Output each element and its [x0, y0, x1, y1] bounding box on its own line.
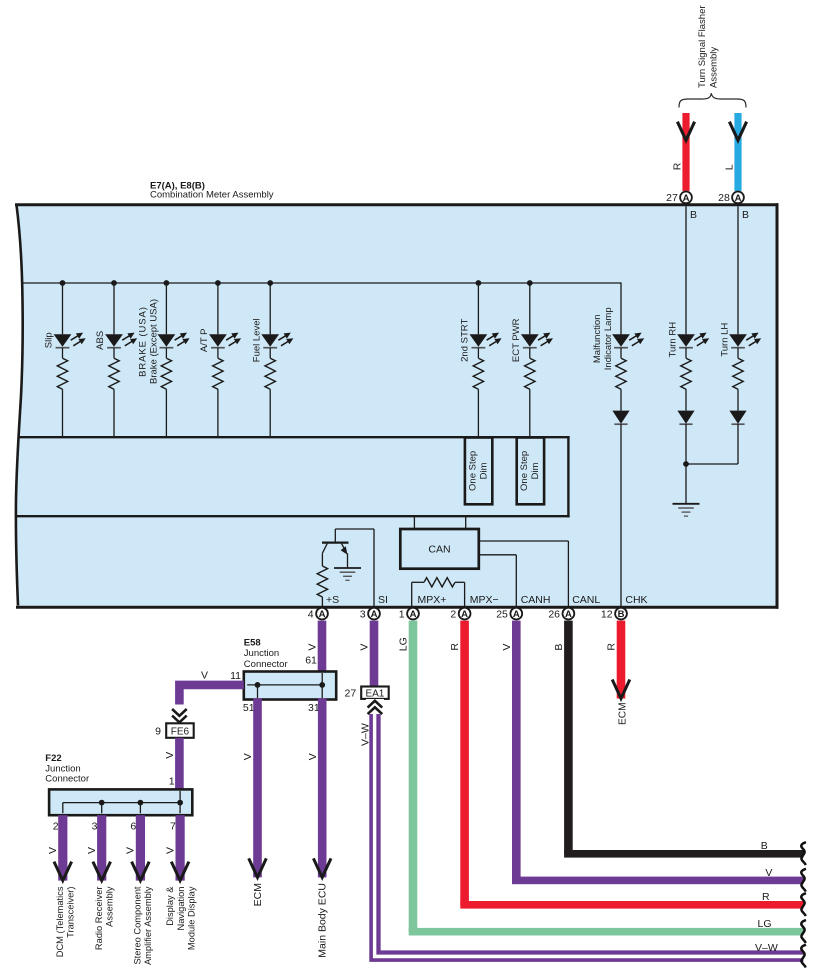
svg-text:V–W: V–W — [359, 723, 371, 746]
svg-text:9: 9 — [155, 726, 161, 738]
label V wire colour on 31 wire — [307, 753, 319, 760]
svg-text:26: 26 — [548, 609, 560, 621]
svg-text:7: 7 — [170, 820, 176, 832]
svg-text:2nd STRT: 2nd STRT — [460, 319, 471, 362]
resistor of A/T P circuit — [213, 348, 223, 436]
label V wire colour on 51 wire — [242, 753, 254, 760]
svg-text:B: B — [742, 209, 749, 221]
wire bus to LED ECT PWR — [529, 283, 531, 334]
pin 2 connector A circle — [450, 608, 470, 621]
resistor of BRAKE circuit — [161, 348, 171, 436]
pin 26 connector A circle — [548, 608, 574, 621]
wire Turn LH diode to ground node — [686, 424, 738, 464]
svg-text:Turn LH: Turn LH — [720, 323, 731, 357]
svg-text:Dim: Dim — [530, 462, 541, 479]
wire transistor base to SI pin — [335, 529, 374, 607]
svg-text:Assembly: Assembly — [709, 47, 720, 88]
node dot F22 pin7 — [177, 800, 183, 806]
svg-text:B: B — [690, 209, 697, 221]
svg-text:Radio Receiver: Radio Receiver — [94, 887, 104, 951]
label 11 — [230, 670, 241, 682]
squiggle break at B wire end — [801, 842, 806, 865]
pin 1 connector A circle — [399, 608, 419, 621]
svg-text:Main Body ECU: Main Body ECU — [317, 883, 329, 958]
wire bus to LED Fuel Level — [269, 283, 271, 334]
node dot E58 right — [319, 682, 325, 688]
svg-text:+S: +S — [326, 594, 339, 606]
LED indicator A/T P — [209, 333, 241, 348]
svg-text:A: A — [513, 609, 520, 620]
svg-text:Assembly: Assembly — [105, 886, 115, 927]
svg-text:LG: LG — [398, 637, 410, 651]
label MPX- — [470, 594, 499, 606]
LED indicator Turn RH — [677, 333, 709, 348]
svg-text:MPX−: MPX− — [470, 594, 499, 606]
F22 internal bus wire — [63, 791, 180, 813]
svg-text:Fuel Level: Fuel Level — [251, 318, 262, 362]
svg-text:A: A — [683, 193, 690, 204]
svg-text:61: 61 — [305, 654, 317, 666]
squiggle break at R wire end — [801, 893, 806, 916]
label destination DCM (Telematics Transceiver) — [55, 886, 76, 957]
svg-text:B: B — [618, 609, 625, 620]
svg-text:CANL: CANL — [572, 594, 600, 606]
wire R (red) from turn signal flasher — [682, 113, 689, 191]
svg-text:V: V — [765, 867, 772, 879]
label CHK — [625, 594, 647, 606]
ground symbol at transistor emitter — [334, 568, 361, 580]
wire V violet from pin 4 to E58 pin 61 — [318, 621, 327, 673]
svg-text:3: 3 — [360, 609, 366, 621]
label Slip — [44, 332, 55, 348]
label 61 — [305, 654, 317, 666]
label MPX+ — [418, 594, 447, 606]
label 27 at EA1 — [345, 688, 357, 700]
label L wire colour — [724, 164, 736, 170]
label destination Radio Receiver Assembly — [94, 886, 115, 950]
LED indicator ECT PWR — [521, 333, 553, 348]
combination meter assembly box E7(A)/E8(B) (light blue body with wavy left edge) — [15, 203, 779, 608]
wire V-W violet-white striped from EA1 (double line) — [371, 714, 803, 960]
label V wire colour on F22 pin 2 wire — [47, 847, 59, 854]
svg-text:A: A — [461, 609, 468, 620]
diode in Turn RH circuit — [677, 411, 694, 425]
svg-text:A: A — [735, 193, 742, 204]
label B wire colour under pin 28 — [742, 209, 749, 221]
node junction dot on bus at ABS — [111, 280, 117, 286]
connector FE6 box — [166, 723, 194, 738]
resistor of Turn RH circuit — [681, 348, 691, 411]
pin 12 connector B circle — [601, 608, 627, 621]
label R wire colour — [672, 162, 684, 170]
resistor of ABS circuit — [109, 348, 119, 436]
label BRAKE (USA) / Brake (Except USA) — [138, 299, 160, 384]
svg-text:25: 25 — [496, 609, 508, 621]
node junction dot on bus at A/T P — [215, 280, 221, 286]
wire CAN block to band (right) — [465, 517, 467, 529]
pin 4 connector A circle — [308, 608, 328, 621]
pin 25 connector A circle — [496, 608, 522, 621]
wire diode to CHK pin — [620, 424, 622, 607]
pin 27 connector A circle — [666, 192, 692, 205]
resistor of Malfunction Indicator Lamp circuit — [616, 348, 626, 411]
label ECM (CHK destination) — [617, 702, 628, 725]
LED indicator Turn LH — [729, 333, 761, 348]
svg-text:6: 6 — [130, 820, 136, 832]
svg-text:11: 11 — [230, 670, 241, 682]
svg-text:Junction: Junction — [244, 648, 279, 659]
arrowhead on F22 pin 2 wire — [54, 862, 72, 881]
wire CAN to CANL pin — [479, 541, 569, 607]
LED indicator Fuel Level — [261, 333, 293, 348]
arrowhead on L wire — [729, 122, 746, 141]
svg-text:R: R — [672, 162, 684, 170]
svg-text:28: 28 — [718, 192, 730, 204]
svg-text:B: B — [553, 644, 565, 651]
svg-text:Slip: Slip — [44, 332, 55, 348]
label destination Stereo Component Amplifier Assembly — [133, 886, 154, 965]
LED indicator BRAKE — [158, 333, 190, 348]
label V on horizontal wire — [201, 669, 208, 681]
wire bus to LED A/T P — [217, 283, 219, 334]
node junction dot on bus at BRAKE — [164, 280, 170, 286]
label F22 Junction Connector — [45, 753, 89, 784]
svg-text:V: V — [125, 847, 137, 854]
label LG at right wire end — [758, 918, 772, 930]
svg-text:A: A — [565, 609, 572, 620]
svg-text:ABS: ABS — [95, 331, 106, 350]
svg-text:R: R — [762, 891, 770, 903]
svg-text:Amplifier Assembly: Amplifier Assembly — [143, 886, 153, 965]
svg-text:Navigation: Navigation — [176, 887, 186, 931]
svg-text:ECM: ECM — [252, 883, 264, 906]
svg-text:V: V — [307, 644, 319, 651]
svg-text:V: V — [501, 644, 513, 651]
label Fuel Level — [251, 318, 262, 362]
wire pin to LED Turn LH — [737, 206, 739, 334]
svg-text:EA1: EA1 — [365, 689, 384, 700]
label CANL — [572, 594, 600, 606]
svg-text:Indicator Lamp: Indicator Lamp — [603, 307, 614, 370]
LED indicator 2nd STRT — [470, 333, 502, 348]
label ABS — [95, 331, 106, 350]
label V–W at right wire end — [755, 942, 778, 954]
svg-text:LG: LG — [758, 918, 772, 930]
pin 28 connector A circle — [718, 192, 744, 205]
svg-text:V: V — [201, 669, 208, 681]
svg-text:51: 51 — [243, 702, 255, 714]
node junction dot on bus at Slip — [60, 280, 66, 286]
label E58 Junction Connector — [244, 637, 288, 669]
svg-text:L: L — [724, 164, 736, 170]
svg-text:CAN: CAN — [428, 544, 450, 556]
label V wire colour on F22 pin 3 wire — [86, 847, 98, 854]
arrowhead on F22 pin 7 wire — [171, 862, 189, 881]
svg-text:Connector: Connector — [45, 774, 89, 785]
svg-text:1: 1 — [399, 609, 405, 621]
svg-text:V: V — [164, 847, 176, 854]
label R wire colour on CHK wire — [606, 643, 618, 651]
resistor of Fuel Level circuit — [265, 348, 275, 436]
wire bus to LED 2nd STRT — [477, 283, 479, 334]
svg-text:A/T P: A/T P — [199, 329, 210, 353]
svg-text:CANH: CANH — [521, 594, 551, 606]
resistor of Turn LH circuit — [733, 348, 743, 411]
label Main Body ECU destination — [317, 883, 329, 958]
One Step Dim block 1 — [465, 438, 492, 505]
arrowhead on F22 pin 3 wire — [93, 862, 111, 881]
wire bus to LED Slip — [62, 283, 64, 334]
node dot E58 left — [255, 682, 261, 688]
label 51 — [243, 702, 255, 714]
svg-text:V: V — [359, 644, 371, 651]
diode in Malfunction Indicator Lamp circuit — [612, 411, 629, 425]
turn signal flasher brace — [679, 93, 746, 107]
svg-text:One Step: One Step — [519, 451, 530, 491]
svg-text:4: 4 — [308, 609, 314, 621]
E58 internal bus wire — [247, 673, 322, 698]
svg-text:DCM (Telematics: DCM (Telematics — [55, 886, 65, 957]
label F22 pin 3 — [92, 820, 98, 832]
wire V violet E58 pin 11 to FE6 corner — [179, 685, 243, 706]
label B wire colour on pin-26 wire — [553, 644, 565, 651]
svg-text:V: V — [307, 753, 319, 760]
svg-text:Display &: Display & — [165, 886, 175, 926]
svg-text:Malfunction: Malfunction — [592, 315, 603, 364]
LED Malfunction Indicator Lamp — [612, 333, 644, 348]
svg-text:MPX+: MPX+ — [418, 594, 447, 606]
wire B black from pin 26 — [564, 621, 804, 858]
label LG wire colour on pin-1 wire — [398, 637, 410, 651]
svg-text:Turn Signal Flasher: Turn Signal Flasher — [697, 5, 708, 88]
arrowhead on R wire — [677, 122, 694, 141]
wire CAN to CANH pin — [479, 555, 517, 607]
LED indicator ABS — [105, 333, 137, 348]
wire V violet F22 pin 6 to Stereo Component — [136, 815, 145, 880]
label V wire colour below FE6 — [164, 752, 176, 759]
svg-text:B: B — [761, 840, 768, 852]
wire V violet from pin 3 to EA1 — [370, 621, 379, 688]
wire R red from pin 2 — [460, 621, 803, 909]
svg-text:ECM: ECM — [617, 702, 628, 725]
svg-text:R: R — [606, 643, 618, 651]
label F22 pin 2 — [53, 820, 59, 832]
label Turn LH — [720, 323, 731, 357]
power bus wire inside meter — [22, 282, 622, 334]
label F22 pin 6 — [130, 820, 136, 832]
label Malfunction Indicator Lamp — [592, 307, 614, 370]
resistor between MPX+ and MPX- — [412, 578, 465, 607]
wire Turn RH diode to ground node — [685, 424, 687, 464]
svg-text:12: 12 — [601, 609, 613, 621]
wire bus to LED ABS — [113, 283, 115, 334]
svg-text:Brake (Except USA): Brake (Except USA) — [149, 299, 160, 384]
arrowhead on CHK wire to ECM — [612, 680, 630, 699]
wire V violet F22 pin 2 to DCM (Telematics — [58, 815, 67, 880]
svg-text:V: V — [47, 847, 59, 854]
label 31 — [308, 702, 320, 714]
label V wire colour on pin-4 wire — [307, 644, 319, 651]
arrowhead on F22 pin 6 wire — [132, 862, 150, 881]
svg-text:Stereo Component: Stereo Component — [133, 886, 143, 964]
squiggle break at LG wire end — [801, 920, 806, 943]
node junction dot on bus at 2nd STRT — [476, 280, 482, 286]
label V wire colour on pin-25 wire — [501, 644, 513, 651]
label +S — [326, 594, 339, 606]
label CANH — [521, 594, 551, 606]
One Step Dim block 2 — [517, 438, 544, 505]
svg-text:Dim: Dim — [478, 462, 489, 479]
svg-text:CHK: CHK — [625, 594, 647, 606]
svg-text:Turn RH: Turn RH — [668, 322, 679, 358]
svg-text:Transceiver): Transceiver) — [66, 887, 76, 938]
resistor of ECT PWR circuit — [525, 348, 535, 438]
label R wire colour on pin-2 wire — [449, 643, 461, 651]
wire R red from pin 12 CHK to ECM — [617, 621, 626, 699]
wire CAN block to band (left) — [413, 517, 415, 529]
double chevron out of EA1 — [366, 699, 384, 714]
junction connector E58 box — [244, 672, 336, 700]
svg-text:Combination Meter Assembly: Combination Meter Assembly — [150, 189, 274, 200]
ground symbol of turn signal circuit — [673, 464, 700, 516]
node junction dot on bus at Fuel Level — [267, 280, 273, 286]
node junction dot on bus at ECT PWR — [527, 280, 533, 286]
label V at right wire end — [765, 867, 772, 879]
label A/T P — [199, 329, 210, 353]
wire V violet E58 pin 31 to Main Body ECU — [318, 698, 327, 877]
node junction dot turn signal ground — [683, 461, 689, 467]
svg-text:1: 1 — [169, 776, 175, 788]
wire V violet FE6 to F22 pin 1 — [175, 738, 184, 791]
squiggle break at V–W wire end — [801, 945, 806, 968]
svg-text:BRAKE (USA): BRAKE (USA) — [138, 306, 149, 377]
double chevron into FE6 — [170, 705, 188, 724]
svg-text:27: 27 — [345, 688, 357, 700]
label R at right wire end — [762, 891, 770, 903]
node dot F22 pin3 — [99, 800, 105, 806]
wire V violet E58 pin 51 to ECM — [253, 698, 262, 877]
svg-text:2: 2 — [450, 609, 456, 621]
svg-text:27: 27 — [666, 192, 678, 204]
label B wire colour under pin 27 — [690, 209, 697, 221]
node dot F22 pin6 — [138, 800, 144, 806]
svg-text:One Step: One Step — [467, 451, 478, 491]
label destination Display & Navigation Module Display — [165, 886, 196, 950]
svg-text:ECT PWR: ECT PWR — [511, 318, 522, 362]
resistor of 2nd STRT circuit — [473, 348, 483, 438]
squiggle break at V wire end — [801, 869, 806, 892]
label V wire colour on F22 pin 6 wire — [125, 847, 137, 854]
resistor of Slip circuit — [57, 348, 67, 436]
svg-text:SI: SI — [378, 594, 388, 606]
svg-text:2: 2 — [53, 820, 59, 832]
svg-text:A: A — [319, 609, 326, 620]
diode in Turn LH circuit — [729, 411, 746, 425]
connector EA1 box — [361, 687, 389, 700]
svg-text:V: V — [242, 753, 254, 760]
svg-text:V: V — [86, 847, 98, 854]
label B at right wire end — [761, 840, 768, 852]
label ECT PWR — [511, 318, 522, 362]
label ECM destination — [252, 883, 264, 906]
CAN block inside meter — [400, 529, 479, 569]
label Turn RH — [668, 322, 679, 358]
transistor Q1 (meter illumination control) — [322, 529, 349, 568]
svg-text:R: R — [449, 643, 461, 651]
wire V violet from pin 25 — [512, 621, 804, 885]
arrowhead E58-31 to Main Body ECU — [313, 858, 331, 877]
resistor +S circuit — [317, 553, 327, 607]
wire V violet F22 pin 7 to Display & — [176, 815, 185, 880]
label 2nd STRT — [460, 319, 471, 362]
svg-text:Connector: Connector — [244, 659, 288, 670]
inner band right edge — [567, 436, 569, 517]
label 1 — [169, 776, 175, 788]
label E7(A), E8(B) / Combination Meter Assembly — [150, 181, 274, 201]
svg-text:V–W: V–W — [755, 942, 778, 954]
label 9 — [155, 726, 161, 738]
label Turn Signal Flasher Assembly — [697, 5, 719, 88]
arrowhead E58-51 to ECM — [249, 858, 267, 877]
svg-text:A: A — [410, 609, 417, 620]
wire L (blue) from turn signal flasher — [734, 113, 741, 191]
svg-text:3: 3 — [92, 820, 98, 832]
svg-text:FE6: FE6 — [171, 727, 190, 738]
svg-text:V: V — [164, 752, 176, 759]
label V wire colour on F22 pin 7 wire — [164, 847, 176, 854]
svg-text:A: A — [371, 609, 378, 620]
svg-text:E58: E58 — [244, 637, 261, 648]
wire LG light-green from pin 1 — [409, 621, 804, 936]
wire pin to LED Turn RH — [685, 206, 687, 334]
inner band (one-step-dim section) upper line — [19, 436, 570, 438]
inner band lower line — [16, 515, 570, 517]
wire bus corner down to Malfunction Indicator Lamp — [620, 333, 622, 335]
svg-text:Module Display: Module Display — [187, 886, 197, 950]
label V wire colour on pin-3 wire — [359, 644, 371, 651]
junction connector F22 box — [49, 789, 192, 815]
wire bus to LED BRAKE — [165, 283, 167, 334]
label V-W wire colour — [359, 723, 371, 746]
pin 3 connector A circle — [360, 608, 380, 621]
label SI — [378, 594, 388, 606]
LED indicator Slip — [54, 333, 86, 348]
label F22 pin 7 — [170, 820, 176, 832]
wire V violet F22 pin 3 to Radio Receiver — [97, 815, 106, 880]
